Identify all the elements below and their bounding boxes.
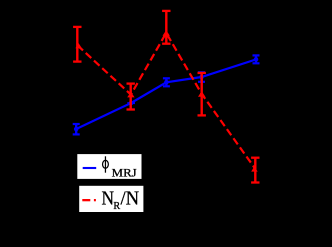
svg-text:N: N — [102, 187, 115, 209]
svg-text:/N: /N — [121, 187, 140, 209]
svg-text:MRJ: MRJ — [112, 166, 137, 180]
